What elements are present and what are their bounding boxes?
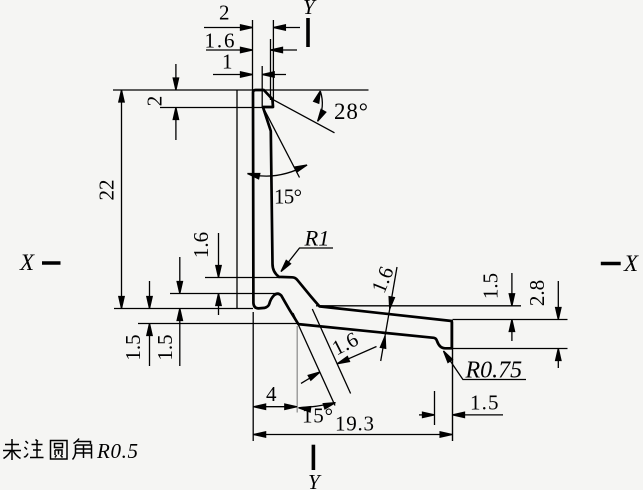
svg-text:Y: Y bbox=[308, 470, 322, 490]
dim 1.5 right bbox=[511, 273, 513, 306]
M1 extension y=305.8 bbox=[316, 305, 521, 307]
extension x=452.5 (foot right) bbox=[452, 322, 454, 441]
28 deg slant thin line bbox=[273, 99, 335, 133]
slot line A bbox=[293, 313, 335, 406]
upper 1.6 arm dim bbox=[381, 267, 397, 361]
X dash left bbox=[42, 261, 61, 264]
dim 19.3 bbox=[253, 434, 452, 436]
svg-text:R0.75: R0.75 bbox=[465, 358, 523, 384]
M2 extension y=319.5 (foot top) bbox=[453, 319, 568, 321]
dim 2 head height bbox=[175, 64, 177, 90]
svg-text:2: 2 bbox=[219, 1, 230, 25]
extension line y=107.5 (head bottom) bbox=[160, 107, 273, 109]
svg-text:28°: 28° bbox=[334, 99, 368, 124]
dim 4 bbox=[253, 406, 297, 408]
svg-text:4: 4 bbox=[266, 382, 277, 406]
dim 2.8 right bbox=[557, 281, 559, 320]
extension line x=268.5 (dim 1.6) bbox=[270, 39, 272, 100]
svg-text:R0.5: R0.5 bbox=[96, 439, 138, 463]
svg-text:19.3: 19.3 bbox=[335, 412, 374, 436]
svg-text:1.5: 1.5 bbox=[153, 334, 177, 360]
dim 1.6 top bbox=[206, 49, 253, 51]
svg-text:1.5: 1.5 bbox=[478, 273, 502, 299]
15 deg top arc bbox=[248, 165, 308, 176]
slot line B bbox=[312, 309, 350, 394]
svg-text:X: X bbox=[19, 250, 35, 275]
bottom 15 deg arc bbox=[299, 403, 336, 408]
未 bbox=[3, 439, 21, 460]
Y section tick bottom bbox=[312, 445, 316, 470]
svg-text:R1: R1 bbox=[304, 226, 330, 251]
svg-text:1.5: 1.5 bbox=[121, 334, 145, 360]
R0.75 leader bbox=[444, 351, 527, 380]
svg-text:1.6: 1.6 bbox=[366, 263, 398, 296]
注 bbox=[24, 440, 44, 458]
svg-text:15°: 15° bbox=[302, 404, 333, 428]
角 bbox=[73, 439, 92, 460]
svg-text:Y: Y bbox=[303, 0, 317, 19]
svg-text:1.6: 1.6 bbox=[189, 232, 213, 258]
bottom left extension x=253.2 bbox=[252, 312, 254, 441]
left bottom extension lines L1 L2 L4 bbox=[205, 277, 280, 279]
lower 1.6 arm dim bbox=[301, 372, 320, 383]
svg-text:2: 2 bbox=[142, 96, 166, 107]
15 deg top slant line bbox=[264, 109, 300, 178]
R1 leader bbox=[281, 248, 333, 272]
extension line x=272.5 (dim 2) bbox=[272, 20, 274, 106]
svg-text:22: 22 bbox=[94, 180, 118, 201]
Y section tick top bbox=[306, 18, 310, 47]
note: 未注圆角R0.5 hand-drawn CJK + text bbox=[3, 439, 92, 461]
extension line x=262.5 (dim 1) bbox=[261, 66, 263, 107]
gray extension x=297.2 bbox=[296, 326, 298, 413]
dim 1.5 (upper of pair) bbox=[179, 257, 181, 294]
profile outline bbox=[253, 90, 452, 348]
dim 2 top bbox=[204, 27, 253, 29]
extension line y=90 horizontal bbox=[113, 89, 369, 91]
dim 1.5 foot bbox=[419, 414, 435, 416]
svg-text:1: 1 bbox=[222, 50, 233, 74]
extension line x=237 bbox=[236, 90, 238, 309]
extension L3 y=308.5 bbox=[114, 308, 253, 310]
extension line x=252.5 above head bbox=[252, 20, 254, 90]
X dash right bbox=[601, 262, 621, 265]
dim 1.6 left bbox=[218, 233, 220, 278]
圆 bbox=[51, 441, 68, 460]
svg-text:15°: 15° bbox=[274, 185, 302, 209]
svg-text:X: X bbox=[623, 251, 639, 276]
svg-text:2.8: 2.8 bbox=[525, 280, 549, 306]
extension x=434.5 (foot left) bbox=[434, 391, 436, 425]
dim 22 bbox=[121, 90, 123, 309]
M3 extension y=348.5 (foot bottom) bbox=[453, 348, 568, 350]
svg-text:1.5: 1.5 bbox=[470, 391, 499, 415]
28 deg arc bbox=[318, 91, 323, 121]
dim 1.5 (lower of pair) bbox=[149, 281, 151, 309]
dim 1 top bbox=[213, 74, 253, 76]
